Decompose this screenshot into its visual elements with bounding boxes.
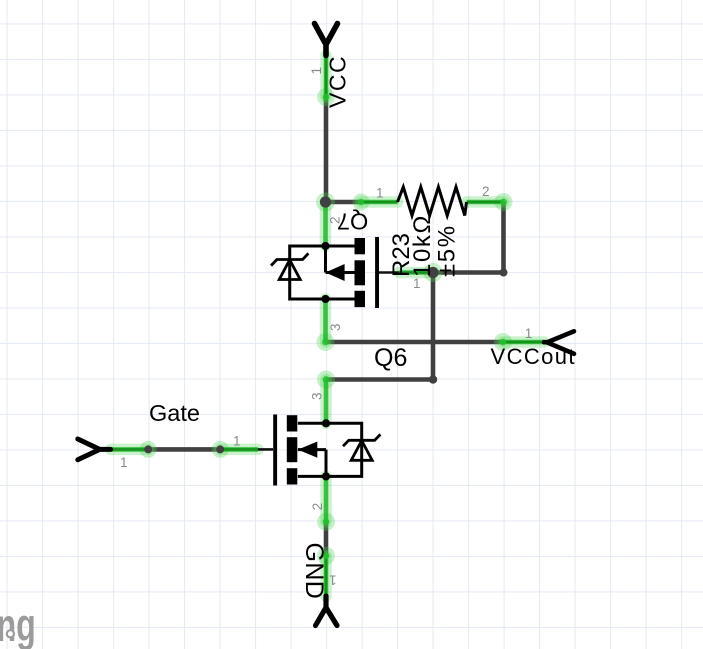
junction Q7 drain-body (321, 242, 329, 250)
pin GND flag (325, 556, 328, 596)
Q6 vertical from arrow to source (325, 450, 328, 477)
pin Q7.1 gate (379, 271, 433, 274)
svg-text:±5%: ±5% (434, 224, 461, 277)
wire end dot gate wire right (216, 445, 224, 453)
node dot VCCout left end (322, 339, 329, 346)
Q6/Q7 symbol pin dots (321, 242, 330, 481)
pin Q7.2 green (323, 202, 328, 246)
pin Q6.2 green (324, 476, 329, 521)
glow pin R23.2 (467, 196, 504, 208)
svg-text:1: 1 (309, 67, 324, 75)
glow dot node Gate-wire-left (140, 441, 157, 458)
pin VCC flag (325, 56, 328, 98)
pin R23.2 green (467, 200, 504, 205)
Q7 channel bars (355, 238, 366, 307)
pin VCCout flag green (503, 340, 544, 345)
pin VCC flag green (324, 56, 329, 98)
Q7 source bar connect bottom (326, 298, 355, 301)
svg-text:Gate: Gate (149, 400, 200, 426)
junction Q7 source-body (321, 295, 329, 303)
Q7 drain bar connect top (326, 245, 355, 248)
svg-text:VCCout: VCCout (491, 344, 576, 369)
pin R23.1 (361, 201, 398, 204)
watermark logo text "ng" (0, 600, 36, 649)
glow dot R23 pin2 (495, 193, 513, 211)
wire VCCout net: horizontal (326, 340, 504, 345)
svg-text:3: 3 (328, 323, 343, 331)
pin Q7.3 green (323, 299, 328, 342)
Q7 gate bar (375, 237, 379, 308)
svg-text:Q6: Q6 (374, 344, 407, 372)
pin Q6.3 green (324, 380, 329, 424)
Q7 body diode loop (290, 246, 326, 299)
svg-text:10kΩ: 10kΩ (409, 214, 436, 277)
svg-text:2: 2 (482, 184, 490, 199)
svg-text:1: 1 (120, 455, 128, 470)
Q6 source bar connect bottom (298, 475, 326, 478)
Q6 middle bar connect (298, 448, 326, 451)
glow pin Q6.2 (320, 476, 332, 521)
Q7 vertical to arrow (324, 246, 327, 273)
glow dot junction gate-node (424, 263, 443, 282)
glow dot node VCCout-pin (494, 333, 512, 351)
svg-text:3: 3 (310, 392, 325, 400)
junction VCC/R23/Q7 (320, 196, 331, 207)
wire end dot gate wire left (144, 445, 152, 453)
svg-text:VCC: VCC (325, 55, 351, 108)
glow pin Gate.1 (111, 444, 149, 456)
Q6 gate bar (273, 415, 277, 486)
wire net R23.2: horizontal to gate node (433, 270, 504, 275)
glow dot R23 pin1 (353, 194, 370, 211)
node dot Gate wire left (145, 446, 151, 452)
node dot R23 pin2 end (500, 199, 507, 206)
node dot GND wire top (323, 552, 330, 559)
svg-text:1: 1 (413, 276, 421, 291)
glow dot node VCC-wire (317, 88, 335, 106)
wire VCC net: junction to resistor pin 1 (324, 200, 362, 205)
green endpoint bright dots (145, 94, 507, 560)
pin VCCout flag (503, 341, 545, 344)
glow pin R23.1 (361, 196, 398, 208)
junction Q6 source-body (322, 472, 330, 480)
power flag VCC (Y up) (315, 24, 338, 56)
wire VCC net: vertical from VCC pin to junction (324, 97, 329, 203)
node dot VCC wire end (323, 94, 330, 101)
corner dot gate-drain (429, 375, 437, 383)
Q6 drain bar connect top (298, 422, 326, 425)
pin Gate flag green (111, 447, 149, 452)
node dot Q6 source (323, 518, 330, 525)
glow pin VCCout.1 (503, 336, 544, 348)
ground flag GND (Y down) (316, 596, 338, 626)
glow dot node Gate-wire-right (212, 441, 229, 458)
glow dot node Q6-drain (317, 371, 335, 389)
glow dot node VCCout (317, 333, 335, 351)
pin Q7.1 green part (399, 270, 430, 275)
Q7 middle bar connect (326, 271, 355, 274)
pin Gate flag (111, 448, 149, 451)
glow pin Q6.1 (220, 444, 258, 456)
corner dot right (500, 269, 508, 277)
node dot Q6 drain (323, 376, 330, 383)
node dot VCCout pin start (500, 339, 507, 346)
glow pin Q7.1 (399, 267, 430, 279)
port flag VCCout (Y right) (544, 331, 574, 354)
glow pin GND.1 (320, 556, 332, 596)
svg-text:2: 2 (328, 216, 343, 224)
svg-text:1: 1 (525, 326, 533, 341)
junction Q6 drain-body (322, 419, 330, 427)
glow dot junction VCC (316, 193, 335, 212)
svg-text:1: 1 (376, 186, 384, 201)
pin R23.1 green (361, 200, 398, 205)
wire Gate net: horizontal (148, 447, 220, 452)
svg-text:1: 1 (329, 573, 337, 588)
svg-text:GND: GND (300, 543, 328, 600)
pin Q6.1 green part (220, 447, 258, 452)
port flag Gate (Y left) (78, 439, 111, 460)
node dot R23 pin1 end (358, 199, 364, 205)
glow pin Q7.3 (320, 299, 332, 342)
wire net gate node: horizontal to Q6 drain (326, 377, 434, 382)
svg-text:2: 2 (310, 503, 325, 511)
svg-text:1: 1 (233, 433, 241, 448)
wire GND net: vertical (324, 522, 329, 556)
Q7 arrow (326, 264, 345, 281)
wire net R23.2: vertical drop on right (501, 202, 506, 273)
junction gate node (427, 267, 438, 278)
Q6 body diode loop (326, 423, 362, 476)
pin Q6.1 gate (220, 448, 273, 451)
pin GND flag green (324, 556, 329, 596)
glow pin Q7.2 (320, 202, 332, 246)
node dot Gate wire right (217, 446, 223, 452)
glow pin Q6.3 (320, 380, 332, 424)
svg-text:ng: ng (0, 600, 36, 649)
pin R23.2 (467, 201, 504, 204)
wire net gate node: vertical down (431, 273, 436, 380)
Q6 body diode (zener) (343, 434, 380, 460)
Q7 body diode (zener) (271, 253, 308, 279)
glow dot node Q6-source (317, 513, 335, 531)
Q6 channel bars (287, 415, 298, 484)
Q6 arrow (298, 442, 317, 458)
glow dot node GND-wire (317, 547, 335, 565)
glow pin VCC.1 (320, 56, 332, 98)
